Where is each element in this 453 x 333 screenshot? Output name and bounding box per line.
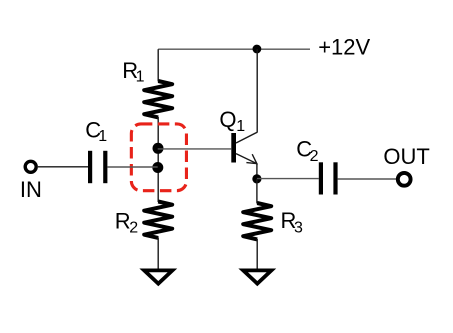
svg-text:2: 2 xyxy=(129,219,138,236)
wire R1 bottom to R2 top xyxy=(157,117,159,202)
node emitter dot xyxy=(252,174,261,183)
wire IN to C1 xyxy=(38,166,88,168)
terminal IN circle xyxy=(25,161,36,172)
node +12V junction dot xyxy=(253,45,262,54)
red dashed highlight box xyxy=(131,124,186,191)
ground (left, below R2) xyxy=(144,270,172,283)
svg-text:Q: Q xyxy=(219,107,236,132)
wire R2 to ground xyxy=(157,238,159,270)
svg-text:1: 1 xyxy=(136,69,145,86)
wire +12V rail xyxy=(158,48,310,50)
wire rail to R1 top xyxy=(157,49,159,81)
svg-text:3: 3 xyxy=(294,219,303,236)
label C1 xyxy=(85,117,107,145)
capacitor C2 xyxy=(321,162,336,194)
label R3 xyxy=(281,208,304,236)
svg-text:1: 1 xyxy=(98,128,107,145)
svg-text:OUT: OUT xyxy=(383,144,429,169)
ground (right, below R3) xyxy=(243,270,271,283)
wire Q1 collector to rail xyxy=(256,49,258,132)
wire R3 to ground xyxy=(256,239,258,269)
transistor Q1 xyxy=(231,132,257,163)
node bias upper dot xyxy=(153,143,164,154)
svg-text:2: 2 xyxy=(310,148,319,165)
wire base: bias node to Q1 base xyxy=(158,148,232,150)
wire emitter to R3 xyxy=(256,179,258,204)
resistor R3 xyxy=(243,203,271,239)
wire C1 to bias node xyxy=(107,166,157,168)
wire C2 to OUT xyxy=(338,178,396,180)
wire emitter to C2 xyxy=(257,178,319,180)
wire Q1 emitter down xyxy=(256,164,258,179)
terminal OUT circle xyxy=(398,173,411,186)
label Q1 xyxy=(219,107,245,135)
label C2 xyxy=(296,136,318,165)
svg-text:1: 1 xyxy=(236,118,245,135)
capacitor C1 xyxy=(90,151,105,183)
svg-text:+12V: +12V xyxy=(318,35,370,60)
resistor R2 xyxy=(144,202,172,238)
label R1 xyxy=(122,58,144,86)
svg-text:IN: IN xyxy=(20,177,42,202)
resistor R1 xyxy=(144,81,172,117)
node bias lower dot xyxy=(152,162,163,173)
label R2 xyxy=(115,209,138,237)
